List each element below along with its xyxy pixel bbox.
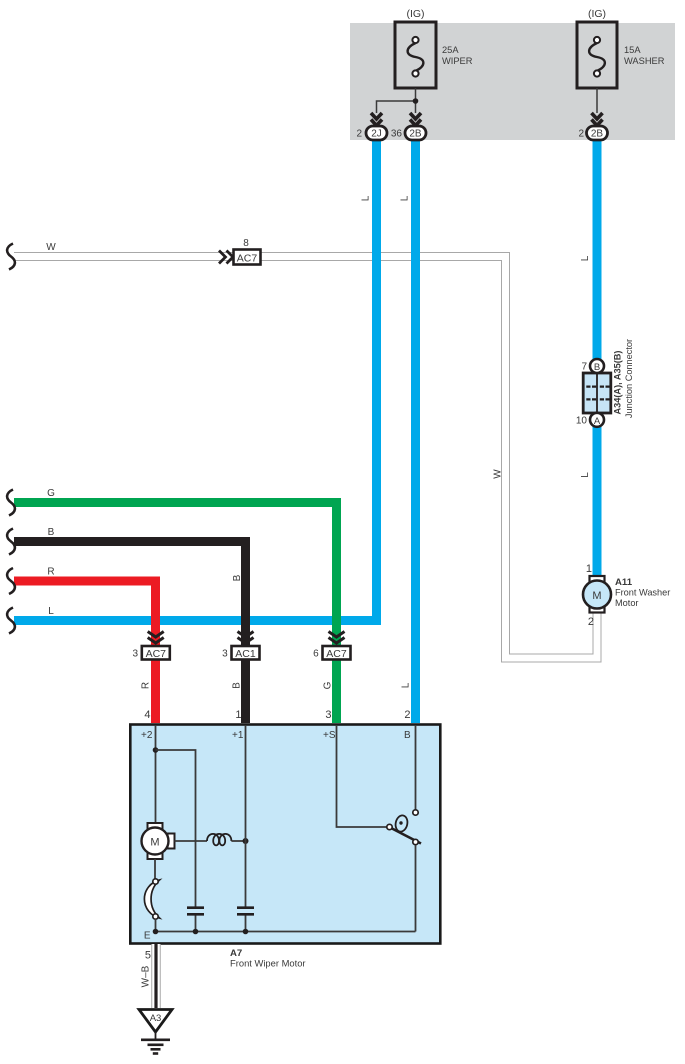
svg-text:G: G <box>323 681 334 689</box>
park switch contact B <box>413 810 418 815</box>
internal wire branch to capacitor C1 <box>156 750 196 932</box>
connector AC7 pin 6 (green) <box>323 646 351 660</box>
squiggle end of wire W <box>7 244 15 270</box>
fuse F2 15A WASHER <box>577 22 617 88</box>
svg-text:B: B <box>48 527 55 538</box>
arrow into AC7 (red) <box>148 632 164 644</box>
svg-text:L: L <box>401 682 412 688</box>
junction dot E at C1 <box>193 929 199 935</box>
connector AC1 pin 3 (black) <box>232 646 260 660</box>
inductor (noise filter coil) <box>207 834 231 845</box>
internal wire motor to inductor <box>175 840 208 842</box>
svg-text:AC7: AC7 <box>326 648 347 660</box>
wire R (red) <box>14 581 156 723</box>
junction dot E at C2 <box>243 929 249 935</box>
internal wire motor to circuit breaker <box>154 859 156 879</box>
svg-text:7: 7 <box>581 362 587 373</box>
circuit breaker bimetal (crescent) <box>144 880 159 918</box>
svg-text:L: L <box>580 472 591 478</box>
connector circle A (pin 10) <box>590 413 604 427</box>
svg-text:Junction Connector: Junction Connector <box>624 339 634 418</box>
wire G (green) <box>14 503 337 724</box>
svg-text:2J: 2J <box>371 129 382 140</box>
connector circle B (pin 7) <box>590 359 604 373</box>
arrow into connector 2J <box>371 113 382 126</box>
svg-text:15A: 15A <box>624 45 641 55</box>
wire W-B from A7 to ground A3 <box>151 944 161 1008</box>
svg-text:+S: +S <box>323 730 336 741</box>
internal wire switch to ground bus <box>415 845 417 932</box>
svg-text:L: L <box>48 606 54 617</box>
svg-text:A34(A), A35(B): A34(A), A35(B) <box>613 351 623 415</box>
junction dot +2 branch <box>153 747 159 753</box>
svg-text:36: 36 <box>391 129 403 140</box>
svg-text:W: W <box>46 242 56 253</box>
name label A11 Front Washer Motor <box>615 577 670 608</box>
wire L (blue) washer 2B to junction connector <box>593 140 602 366</box>
svg-text:8: 8 <box>243 238 249 249</box>
svg-text:AC1: AC1 <box>235 648 256 660</box>
svg-text:R: R <box>141 682 152 689</box>
svg-text:B: B <box>594 362 600 373</box>
svg-text:AC7: AC7 <box>146 648 167 660</box>
svg-text:2: 2 <box>356 129 362 140</box>
svg-text:3: 3 <box>325 709 331 721</box>
front wiper motor A7 box <box>130 725 440 944</box>
svg-text:B: B <box>232 574 243 581</box>
connector 2B pin 2 (washer) <box>587 126 608 140</box>
park switch cam <box>394 814 409 832</box>
connector AC7 pin 3 (red) <box>142 646 170 660</box>
internal ground bus wire (E) <box>156 931 416 933</box>
capacitor C2 <box>237 908 254 915</box>
capacitor C1 <box>187 908 204 915</box>
svg-text:M: M <box>150 837 159 849</box>
park switch cam pivot dot <box>399 821 402 824</box>
svg-text:L: L <box>580 255 591 261</box>
washer motor A11 <box>583 576 611 613</box>
circuit breaker contact bottom <box>153 914 158 919</box>
svg-text:3: 3 <box>222 649 228 660</box>
junction dot E at motor leg <box>153 929 159 935</box>
svg-text:2: 2 <box>404 709 410 721</box>
wire L (blue) from 2B to wiper motor A7 <box>411 140 420 723</box>
name label A7 Front Wiper Motor <box>230 948 306 969</box>
ground triangle A3 <box>139 1010 172 1033</box>
svg-text:5: 5 <box>145 950 151 962</box>
svg-text:A3: A3 <box>150 1013 162 1024</box>
svg-text:(IG): (IG) <box>588 8 606 20</box>
internal wire B to park switch contact <box>415 725 417 810</box>
svg-text:B: B <box>232 682 243 689</box>
squiggle end of wire R <box>7 568 15 594</box>
svg-text:+1: +1 <box>232 730 244 741</box>
wire L (blue) junction connector to washer motor <box>593 419 602 578</box>
svg-text:2: 2 <box>578 129 584 140</box>
wire fuse F1 to connectors 2J / 2B <box>377 88 416 113</box>
svg-text:1: 1 <box>586 563 592 575</box>
circuit breaker contact top <box>153 879 158 884</box>
svg-text:+2: +2 <box>141 730 153 741</box>
connector 2J pin 2 <box>366 126 387 140</box>
connector 2B pin 36 <box>405 126 426 140</box>
svg-text:(IG): (IG) <box>406 8 424 20</box>
wire L (blue) from 2J to left cowl <box>14 140 377 621</box>
svg-text:E: E <box>144 931 151 942</box>
svg-text:W: W <box>493 469 504 479</box>
svg-text:W–B: W–B <box>141 965 152 987</box>
svg-text:Front Wiper Motor: Front Wiper Motor <box>230 958 306 969</box>
wiper motor M <box>142 823 175 859</box>
wire triangle to ground <box>155 1032 157 1039</box>
svg-text:2B: 2B <box>591 129 604 140</box>
svg-text:3: 3 <box>132 649 138 660</box>
svg-text:2: 2 <box>588 616 594 628</box>
svg-text:Motor: Motor <box>615 598 639 608</box>
wire W (white) AC7 to washer motor <box>14 257 597 659</box>
svg-text:L: L <box>400 195 411 201</box>
squiggle end of wire B <box>7 529 15 555</box>
svg-text:WASHER: WASHER <box>624 56 665 66</box>
svg-text:2B: 2B <box>409 129 422 140</box>
internal wire +1 down through C2 <box>245 725 247 932</box>
arrow into connector 2B <box>410 113 421 126</box>
svg-text:M: M <box>592 590 601 602</box>
svg-text:Front Washer: Front Washer <box>615 588 670 598</box>
park switch arm <box>392 829 421 844</box>
fuse F1 25A WIPER <box>395 22 436 88</box>
squiggle end of wire G <box>7 490 15 516</box>
wire fuse F2 to connector 2B <box>596 88 598 113</box>
svg-text:B: B <box>404 730 411 741</box>
wire B (black) <box>14 542 246 724</box>
svg-text:R: R <box>47 567 54 578</box>
svg-text:25A: 25A <box>442 45 459 55</box>
arrow into AC1 (black) <box>238 632 254 644</box>
junction dot below fuse F1 <box>413 98 419 104</box>
svg-text:1: 1 <box>235 709 241 721</box>
internal wire breaker to E <box>155 919 157 932</box>
svg-text:WIPER: WIPER <box>442 56 473 66</box>
arrow >> into AC7 (W wire) <box>219 251 233 264</box>
junction connector A34(A) A35(B) <box>583 373 611 413</box>
connector AC7 on W wire <box>234 250 261 265</box>
internal wire +2 down to motor <box>155 725 157 828</box>
arrow into AC7 (green) <box>329 632 345 644</box>
svg-text:10: 10 <box>576 416 588 427</box>
junction block (gray background) <box>350 23 675 140</box>
junction dot at +1 drop <box>243 838 249 844</box>
park switch moving contact <box>413 839 418 844</box>
svg-text:6: 6 <box>313 649 319 660</box>
squiggle end of wire L <box>7 608 15 634</box>
svg-text:L: L <box>361 195 372 201</box>
internal wire +S to park switch <box>337 725 387 827</box>
svg-text:AC7: AC7 <box>237 253 258 265</box>
svg-text:A11: A11 <box>615 577 633 588</box>
ground symbol <box>141 1040 170 1054</box>
svg-text:4: 4 <box>144 709 150 721</box>
park switch common contact <box>387 824 392 829</box>
arrow into washer connector 2B <box>592 113 603 126</box>
internal wire inductor to +1 drop <box>231 840 245 842</box>
svg-text:G: G <box>47 488 55 499</box>
svg-text:A: A <box>594 416 601 427</box>
